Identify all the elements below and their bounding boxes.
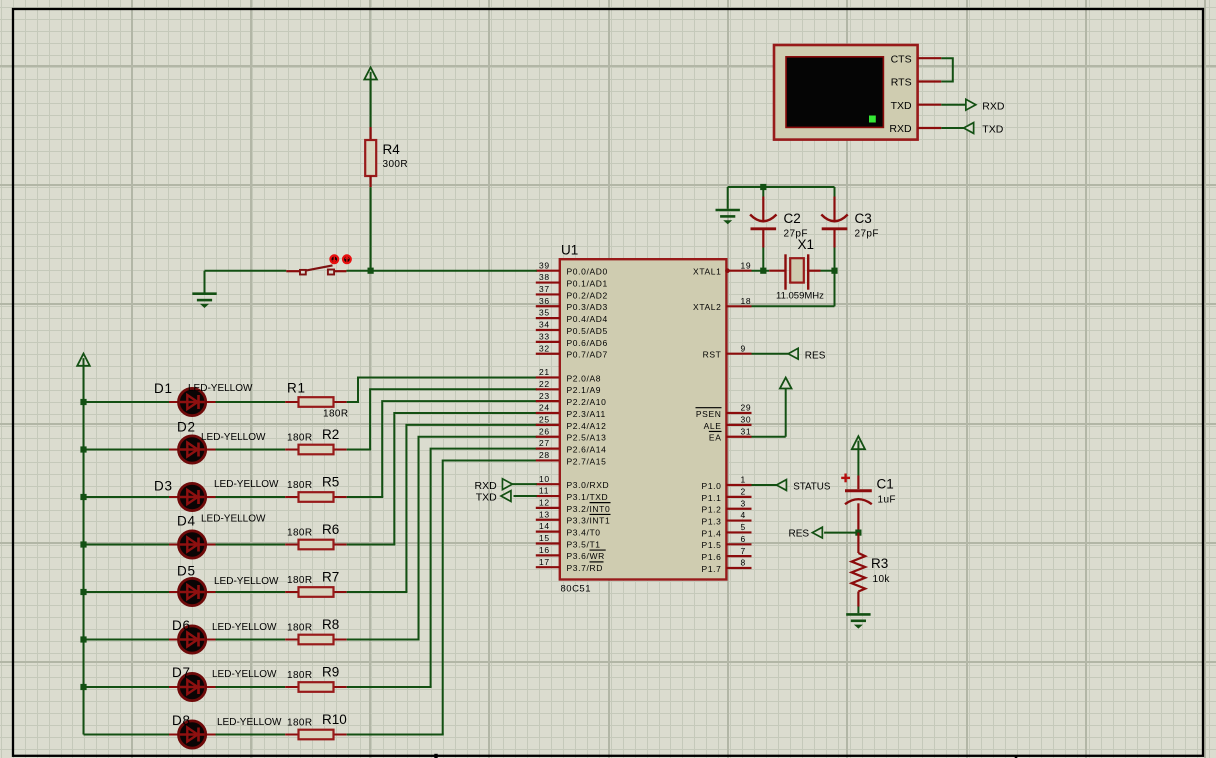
svg-text:LED-YELLOW: LED-YELLOW <box>217 717 282 728</box>
svg-text:10: 10 <box>539 474 550 484</box>
svg-text:30: 30 <box>741 415 752 425</box>
svg-text:P0.5/AD5: P0.5/AD5 <box>567 326 608 336</box>
svg-text:RES: RES <box>805 350 826 361</box>
svg-text:1: 1 <box>741 475 746 485</box>
svg-text:RXD: RXD <box>982 100 1005 112</box>
svg-text:R4: R4 <box>383 142 401 157</box>
svg-text:P0.6/AD6: P0.6/AD6 <box>567 338 608 348</box>
svg-text:P0.7/AD7: P0.7/AD7 <box>567 350 608 360</box>
svg-text:P0.3/AD3: P0.3/AD3 <box>567 302 608 312</box>
svg-text:P2.0/A8: P2.0/A8 <box>567 373 602 383</box>
svg-text:31: 31 <box>741 426 752 436</box>
svg-text:37: 37 <box>539 284 550 294</box>
svg-text:TXD: TXD <box>476 492 497 504</box>
svg-text:300R: 300R <box>383 159 409 170</box>
svg-text:D8: D8 <box>172 713 191 728</box>
svg-text:33: 33 <box>539 331 550 341</box>
svg-text:D6: D6 <box>172 618 191 633</box>
svg-text:9: 9 <box>741 343 746 353</box>
svg-text:39: 39 <box>539 260 550 270</box>
svg-text:P1.1: P1.1 <box>702 493 722 503</box>
svg-text:P1.3: P1.3 <box>702 516 722 526</box>
svg-text:8: 8 <box>741 558 746 568</box>
svg-text:180R: 180R <box>287 433 313 444</box>
svg-text:P2.3/A11: P2.3/A11 <box>567 409 606 419</box>
svg-text:38: 38 <box>539 272 550 282</box>
svg-text:R9: R9 <box>322 665 339 680</box>
svg-text:R5: R5 <box>322 475 339 490</box>
svg-text:P1.0: P1.0 <box>702 481 722 491</box>
svg-text:LED-YELLOW: LED-YELLOW <box>201 514 266 525</box>
svg-text:17: 17 <box>539 557 550 567</box>
svg-text:35: 35 <box>539 308 550 318</box>
svg-text:P0.4/AD4: P0.4/AD4 <box>567 314 608 324</box>
svg-text:RES: RES <box>789 529 810 540</box>
svg-text:P3.1/TXD: P3.1/TXD <box>567 492 609 502</box>
svg-text:13: 13 <box>539 509 550 519</box>
svg-text:3: 3 <box>741 498 746 508</box>
svg-text:ALE: ALE <box>704 421 722 431</box>
svg-text:18: 18 <box>741 296 752 306</box>
svg-text:15: 15 <box>539 533 550 543</box>
svg-text:P3.3/INT1: P3.3/INT1 <box>567 516 611 526</box>
svg-text:19: 19 <box>741 260 752 270</box>
svg-text:R10: R10 <box>322 712 347 727</box>
svg-text:P0.2/AD2: P0.2/AD2 <box>567 290 608 300</box>
svg-text:D3: D3 <box>154 479 173 494</box>
svg-text:RST: RST <box>703 350 722 360</box>
svg-text:26: 26 <box>539 426 550 436</box>
svg-text:180R: 180R <box>287 480 313 491</box>
svg-text:D2: D2 <box>177 420 196 435</box>
svg-text:P3.2/INT0: P3.2/INT0 <box>567 504 611 514</box>
svg-text:R3: R3 <box>871 556 888 571</box>
svg-text:P1.6: P1.6 <box>702 552 722 562</box>
svg-text:24: 24 <box>539 403 550 413</box>
svg-text:LED-YELLOW: LED-YELLOW <box>188 383 253 394</box>
svg-text:27pF: 27pF <box>855 229 879 240</box>
svg-text:R7: R7 <box>322 570 339 585</box>
svg-text:27: 27 <box>539 438 550 448</box>
svg-text:36: 36 <box>539 296 550 306</box>
svg-text:X1: X1 <box>798 237 815 252</box>
svg-text:P2.6/A14: P2.6/A14 <box>567 445 607 455</box>
svg-text:21: 21 <box>539 367 550 377</box>
svg-text:16: 16 <box>539 545 550 555</box>
svg-text:D4: D4 <box>177 514 196 529</box>
svg-text:180R: 180R <box>323 409 349 420</box>
svg-text:U1: U1 <box>561 243 578 258</box>
svg-text:C1: C1 <box>877 477 894 492</box>
svg-text:C2: C2 <box>784 211 801 226</box>
svg-text:4: 4 <box>741 510 746 520</box>
svg-text:5: 5 <box>741 522 746 532</box>
svg-text:180R: 180R <box>287 718 313 729</box>
svg-text:23: 23 <box>539 391 550 401</box>
svg-text:32: 32 <box>539 343 550 353</box>
svg-text:D1: D1 <box>154 381 173 396</box>
svg-text:R1: R1 <box>287 381 306 396</box>
svg-text:R2: R2 <box>322 427 339 442</box>
svg-text:LED-YELLOW: LED-YELLOW <box>201 432 266 443</box>
svg-text:11: 11 <box>539 486 549 496</box>
svg-text:R8: R8 <box>322 617 339 632</box>
svg-text:LED-YELLOW: LED-YELLOW <box>214 479 279 490</box>
svg-text:P1.2: P1.2 <box>702 505 722 515</box>
svg-text:28: 28 <box>539 450 550 460</box>
svg-text:TXD: TXD <box>891 100 912 112</box>
svg-text:29: 29 <box>741 403 752 413</box>
svg-text:LED-YELLOW: LED-YELLOW <box>212 622 277 633</box>
svg-text:STATUS: STATUS <box>793 482 831 493</box>
svg-text:180R: 180R <box>287 575 313 586</box>
svg-text:P2.1/A9: P2.1/A9 <box>567 385 602 395</box>
svg-text:P2.2/A10: P2.2/A10 <box>567 397 607 407</box>
svg-text:P1.7: P1.7 <box>702 564 722 574</box>
svg-text:P2.7/A15: P2.7/A15 <box>567 456 607 466</box>
svg-text:LED-YELLOW: LED-YELLOW <box>214 576 279 587</box>
svg-text:25: 25 <box>539 414 550 424</box>
svg-text:C3: C3 <box>855 211 872 226</box>
svg-text:P1.5: P1.5 <box>702 540 722 550</box>
svg-text:22: 22 <box>539 379 550 389</box>
svg-text:34: 34 <box>539 320 550 330</box>
svg-text:10k: 10k <box>873 574 891 585</box>
svg-text:EA: EA <box>709 433 722 443</box>
svg-text:D5: D5 <box>177 564 196 579</box>
svg-text:180R: 180R <box>287 528 313 539</box>
svg-text:LED-YELLOW: LED-YELLOW <box>212 669 277 680</box>
svg-text:2: 2 <box>741 486 746 496</box>
svg-text:11.059MHz: 11.059MHz <box>776 291 824 302</box>
svg-text:PSEN: PSEN <box>696 409 722 419</box>
svg-text:180R: 180R <box>287 670 313 681</box>
svg-text:XTAL1: XTAL1 <box>693 267 721 277</box>
svg-text:12: 12 <box>539 498 550 508</box>
svg-text:CTS: CTS <box>891 53 912 65</box>
svg-text:180R: 180R <box>287 623 313 634</box>
svg-text:RXD: RXD <box>889 123 912 135</box>
svg-text:14: 14 <box>539 521 550 531</box>
svg-text:R6: R6 <box>322 522 339 537</box>
svg-text:P3.6/WR: P3.6/WR <box>567 551 605 561</box>
svg-text:P3.7/RD: P3.7/RD <box>567 563 603 573</box>
svg-text:P0.0/AD0: P0.0/AD0 <box>567 267 608 277</box>
svg-text:P0.1/AD1: P0.1/AD1 <box>567 278 608 288</box>
svg-text:80C51: 80C51 <box>561 583 592 594</box>
svg-text:7: 7 <box>741 546 746 556</box>
svg-text:TXD: TXD <box>982 124 1003 136</box>
svg-text:P1.4: P1.4 <box>702 528 722 538</box>
svg-text:P3.4/T0: P3.4/T0 <box>567 528 601 538</box>
svg-text:P3.5/T1: P3.5/T1 <box>567 539 601 549</box>
svg-text:D7: D7 <box>172 665 191 680</box>
svg-text:P2.4/A12: P2.4/A12 <box>567 421 607 431</box>
svg-text:RXD: RXD <box>475 480 498 492</box>
svg-text:P3.0/RXD: P3.0/RXD <box>567 480 610 490</box>
svg-text:6: 6 <box>741 534 746 544</box>
svg-text:RTS: RTS <box>891 77 912 89</box>
svg-text:1uF: 1uF <box>878 495 896 506</box>
svg-text:XTAL2: XTAL2 <box>693 302 721 312</box>
svg-text:P2.5/A13: P2.5/A13 <box>567 433 607 443</box>
